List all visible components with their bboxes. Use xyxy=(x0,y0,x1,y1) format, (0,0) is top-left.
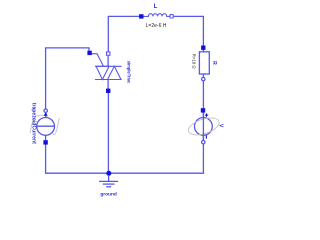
wire resistor R n pin down to voltage source V p pin xyxy=(202,74,204,140)
svg-text:simpleTriac: simpleTriac xyxy=(127,61,132,84)
voltage source V axis line xyxy=(202,112,204,140)
node inductor L p pin xyxy=(139,14,143,18)
ground xyxy=(99,175,118,187)
wire inductor L n pin right and down to resistor R p pin xyxy=(174,16,204,52)
triac simpleTriac bottom bar xyxy=(95,79,122,81)
svg-text:R: R xyxy=(211,61,217,65)
current source arrow xyxy=(44,112,48,116)
node triac gate pin xyxy=(87,51,91,55)
resistor R body xyxy=(199,52,209,74)
triac simpleTriac top bar xyxy=(95,65,122,67)
svg-text:L=2e-6 H: L=2e-6 H xyxy=(146,23,167,29)
wire triac body to n pin stub xyxy=(107,80,109,89)
wire voltage source V n pin down, left along bottom, up to trapezoidCurrent p pin xyxy=(46,144,204,173)
current source trapezoidCurrent wave curve (grey) xyxy=(30,115,59,135)
node resistor R p pin xyxy=(201,46,205,50)
pin triac p (open) xyxy=(107,52,110,55)
pin inductor L n (open) xyxy=(170,15,173,18)
voltage source V minus sign xyxy=(205,135,207,138)
voltage source V sine curve (grey) xyxy=(186,115,221,139)
triac simpleTriac gate lead xyxy=(92,54,104,67)
svg-text:R=10 Ω: R=10 Ω xyxy=(192,54,197,70)
wire triac p pin stub to triac body xyxy=(107,56,109,67)
current source trapezoidCurrent diameter line xyxy=(37,125,54,127)
svg-text:L: L xyxy=(154,4,158,10)
pin current source n (open) xyxy=(44,109,47,112)
voltage source V plus sign xyxy=(205,113,208,116)
inductor L coil xyxy=(144,14,170,17)
pin voltage source V n (open) xyxy=(202,141,205,144)
node voltage source V p pin xyxy=(201,108,205,112)
node current source p pin xyxy=(43,140,47,144)
triac simpleTriac right triangle xyxy=(108,66,122,79)
junction node at ground tap xyxy=(106,171,111,176)
voltage source V circle xyxy=(195,118,213,136)
wire triac n pin down to ground junction xyxy=(107,93,109,171)
pin resistor R n (open) xyxy=(202,77,205,80)
node triac n pin xyxy=(106,89,110,93)
current source stub top xyxy=(45,113,47,118)
current source trapezoidCurrent circle xyxy=(37,118,55,136)
triac simpleTriac left triangle xyxy=(96,66,109,79)
wire triac p pin up and right to inductor L p pin xyxy=(108,16,141,51)
svg-text:V: V xyxy=(217,124,223,128)
wire trapezoidCurrent n pin up and right to triac gate pin xyxy=(46,48,89,109)
svg-text:ground: ground xyxy=(100,192,117,198)
svg-text:trapezoidCurrent: trapezoidCurrent xyxy=(30,103,36,144)
current source stub bottom xyxy=(45,135,47,140)
